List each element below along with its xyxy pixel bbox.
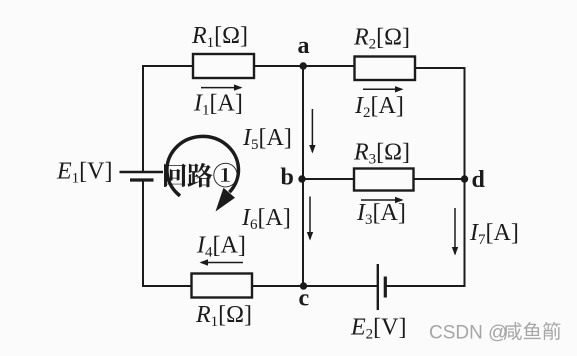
svg-text:c: c: [299, 286, 310, 312]
svg-text:R1[Ω]: R1[Ω]: [191, 23, 248, 51]
svg-text:I5[A]: I5[A]: [242, 125, 292, 153]
svg-text:b: b: [281, 165, 294, 191]
svg-text:E1[V]: E1[V]: [56, 159, 113, 187]
svg-text:CSDN @: CSDN @: [429, 323, 507, 344]
svg-text:E2[V]: E2[V]: [350, 315, 407, 343]
svg-text:I4[A]: I4[A]: [196, 233, 246, 261]
svg-text:I2[A]: I2[A]: [354, 93, 404, 121]
svg-text:d: d: [472, 167, 486, 193]
svg-text:R3[Ω]: R3[Ω]: [353, 140, 410, 168]
svg-text:I7[A]: I7[A]: [469, 220, 519, 248]
svg-text:a: a: [298, 33, 310, 59]
svg-text:I1[A]: I1[A]: [193, 91, 243, 119]
svg-text:R1[Ω]: R1[Ω]: [195, 302, 252, 330]
svg-text:I6[A]: I6[A]: [241, 205, 291, 233]
svg-text:R2[Ω]: R2[Ω]: [353, 25, 410, 53]
svg-text:I3[A]: I3[A]: [356, 200, 406, 228]
